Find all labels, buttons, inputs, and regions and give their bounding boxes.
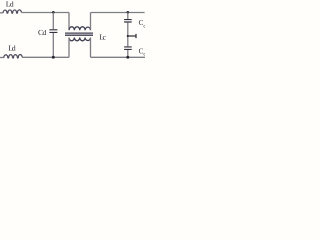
node B junction dot (top right) <box>126 11 129 14</box>
svg-text:Ld: Ld <box>8 43 15 52</box>
wire top-left lead <box>0 12 3 14</box>
svg-text:Lc: Lc <box>99 33 106 42</box>
capacitor Cd plates <box>49 30 57 33</box>
choke Lc bottom winding arcs <box>69 38 90 41</box>
wire bottom-left lead <box>0 57 4 59</box>
capacitor Cc (top right) plates <box>124 20 132 22</box>
wire top rail to choke <box>21 12 69 14</box>
capacitor Cd top lead <box>52 13 54 30</box>
node C junction dot (bottom, Cd tap) <box>52 56 55 59</box>
choke Lc top winding arcs <box>69 27 90 30</box>
svg-text:Ld: Ld <box>6 0 14 9</box>
node E junction dot (midpoint tap) <box>127 35 129 37</box>
choke Lc top winding left lead <box>68 13 70 30</box>
choke Lc bottom winding left lead <box>68 38 70 58</box>
wire top rail right of choke <box>91 12 145 14</box>
capacitor Cc bottom lead <box>127 50 129 57</box>
capacitor Cd bottom lead <box>52 33 54 57</box>
choke Lc top winding right lead <box>90 13 92 30</box>
choke Lc bottom winding right lead <box>90 38 92 58</box>
capacitor Cc middle lead (between caps) <box>127 23 129 47</box>
svg-text:Cc: Cc <box>139 19 145 29</box>
svg-text:Cd: Cd <box>38 28 46 37</box>
wire bottom rail to choke <box>22 56 69 58</box>
svg-text:Cc: Cc <box>139 47 145 57</box>
wire bottom rail right of choke <box>91 56 146 58</box>
capacitor Cc (bottom right) plates <box>124 47 132 50</box>
inductor Ld (top-left) <box>3 10 21 13</box>
terminal bar at stub end <box>135 34 137 38</box>
inductor Ld (bottom-left) <box>4 55 22 58</box>
node A junction dot (top, Cd tap) <box>52 11 55 14</box>
node D junction dot (bottom right) <box>126 56 129 59</box>
choke Lc core lines <box>65 33 93 35</box>
capacitor Cc top lead <box>127 13 129 20</box>
wire midpoint stub <box>128 35 136 37</box>
